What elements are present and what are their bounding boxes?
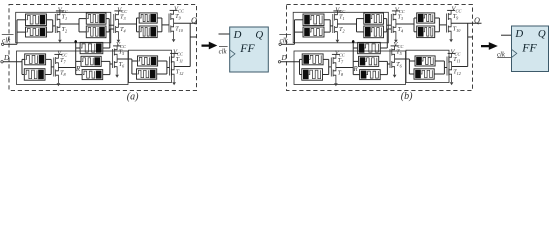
inverter U5 transistors T5 T6 (b) [389,49,391,68]
inverter U4 transistors T7 T8 (a) [53,58,55,77]
RC delay cell R8C8 (a) [24,69,45,81]
svg-text:T8: T8 [60,70,66,77]
signal flow arrow into FF1 [202,42,218,50]
svg-text:(b): (b) [401,91,413,102]
svg-text:R: R [353,66,359,73]
svg-text:T3: T3 [398,15,403,22]
RC delay cell R10C10 (b) [359,56,379,66]
RC delay cell R2C2 (a) [26,27,47,37]
wire U4 output to middle column (b) [336,67,353,69]
wire bottom-right outputs to inverter U6 gates (a) [158,60,167,62]
FF2 clock triangle pin [512,49,517,57]
svg-text:(a): (a) [127,92,139,103]
RC delay cell R4C4 (b) [364,26,384,38]
module box bottom-left chain (a) [17,51,129,85]
svg-text:T9: T9 [175,14,181,21]
svg-text:T1: T1 [62,15,67,22]
wire U6 output riser to Q node (b) [452,66,468,68]
wire bottom stage1 outputs to inverter U4 gates (b) [323,58,329,60]
RC delay cell R8C8 (b) [302,69,323,81]
wire stage1 outputs to inverter U1 gates (b) [324,19,330,21]
svg-text:D: D [3,54,10,62]
wire middle cells to inverter U5 gates (a) [101,60,110,62]
RC delay cell R5C5 (b) [417,13,435,23]
wire bottom stage1 outputs to inverter U4 gates (a) [46,58,52,60]
module box bottom-right chain (a) [129,50,172,82]
RC delay cell R7C7 (a) [25,54,46,65]
wire U2 output to stage3 (a) [118,23,136,25]
svg-text:T10: T10 [453,26,461,33]
RC delay cell R13C13 (b) [414,69,434,79]
clk input wire (a) [1,43,3,45]
svg-text:T4: T4 [120,27,125,34]
inverter U1 transistors T1 T2 (a) [54,14,56,33]
inverter U3 transistors T9 T10 (a) [168,14,170,33]
wire U6 output riser to Q node (a) [174,66,190,68]
svg-text:D: D [281,54,288,62]
RC delay cell R11C11 (b) [360,70,381,80]
svg-text:T9: T9 [453,14,459,21]
wire middle cell to U2 gates (b) [380,47,387,49]
wire middle cells to inverter U5 gates (b) [379,60,388,62]
RC delay cell R12C12 (b) [415,56,435,66]
FF1 clock triangle pin [230,50,235,58]
svg-text:D: D [233,29,242,41]
wire bottom-right outputs to inverter U6 gates (b) [435,60,444,62]
RC delay cell R9C9 (a) [80,42,103,53]
module box top chain (b) [293,12,388,43]
node bus middle column (a) [75,40,77,75]
svg-text:VCC: VCC [394,41,404,49]
RC delay cell R6C6 (b) [417,26,435,38]
inverter U2 transistors T3 T4 (b) [390,14,392,33]
svg-text:VCC: VCC [173,49,183,57]
svg-text:T11: T11 [453,57,460,64]
inverter U1 transistors T1 T2 (b) [332,14,334,33]
flip-flop FF2 box [512,26,549,72]
svg-text:T11: T11 [176,57,183,64]
wire U2 output to stage3 (b) [396,23,414,25]
module box top chain (a) [16,12,111,43]
svg-text:T7: T7 [338,58,344,65]
wire stage3 outputs to inverter U3 gates (a) [157,17,162,19]
svg-text:T6: T6 [396,62,402,69]
svg-text:T1: T1 [339,15,344,22]
inverter U5 transistors T5 T6 (a) [112,49,114,68]
wire U4 output to middle column (a) [58,67,75,69]
inverter U3 transistors T9 T10 (b) [446,14,448,33]
svg-text:T12: T12 [453,69,461,76]
RC delay cell R2C2 (b) [303,27,324,37]
dashed delay-block boundary box (b) [287,5,473,91]
RC delay cell R3C3 (a) [86,13,106,24]
flip-flop FF1 box [230,27,269,72]
wire U5 output to bottom-right cells (b) [395,58,410,60]
FF2 D input stub wire [501,34,512,36]
svg-text:VCC: VCC [451,49,461,57]
svg-text:FF: FF [239,41,255,55]
svg-text:Q: Q [474,16,480,25]
svg-text:VCC: VCC [452,6,462,14]
module box bottom-left chain (b) [294,51,406,85]
RC delay cell R12C12 (a) [138,56,158,66]
inverter U6 transistors T11 T12 (b) [446,57,448,76]
RC delay cell R7C7 (b) [302,54,323,65]
wire stage3 outputs to inverter U3 gates (b) [435,17,440,19]
svg-text:Q: Q [191,16,197,25]
RC delay cell R6C6 (a) [139,26,157,38]
RC delay cell R3C3 (b) [364,13,384,24]
svg-text:FF: FF [521,41,537,55]
wire U5 output to bottom-right cells (a) [117,58,132,60]
wire stage2 outputs to inverter U2 gates (b) [384,18,387,20]
wire stage2 outputs to inverter U2 gates (a) [106,18,109,20]
node Q output wire (b) [451,22,481,24]
svg-text:Q: Q [255,29,263,41]
svg-text:clk: clk [219,48,228,55]
svg-text:T12: T12 [176,69,184,76]
svg-text:D: D [514,28,523,40]
RC delay cell R9C9 (b) [358,42,381,53]
wire middle cell to U2 gates (a) [103,47,110,49]
svg-text:VCC: VCC [116,41,126,49]
RC delay cell R13C13 (a) [137,69,157,79]
svg-text:T4: T4 [398,27,403,34]
inverter U4 transistors T7 T8 (b) [330,58,332,77]
svg-text:T3: T3 [120,15,125,22]
inverter U6 transistors T11 T12 (a) [169,57,171,76]
svg-text:T5: T5 [396,50,401,57]
svg-text:Q: Q [538,28,546,40]
dashed delay-block boundary box (a) [9,5,197,91]
svg-text:T10: T10 [175,26,183,33]
wire U1 output to stage2 (a) [60,23,79,25]
RC delay cell R4C4 (a) [86,26,106,38]
D input wire (b) [278,61,280,63]
clk input wire (b) [279,43,281,45]
node bus middle column (b) [352,40,354,75]
svg-text:T7: T7 [60,58,66,65]
svg-text:T2: T2 [339,27,344,34]
node Q output wire (a) [174,22,197,24]
svg-text:T8: T8 [338,70,344,77]
wire U1 output to stage2 (b) [337,23,356,25]
RC delay cell R1C1 (b) [303,14,324,26]
svg-text:VCC: VCC [395,6,405,14]
RC delay cell R10C10 (a) [81,56,101,66]
svg-text:VCC: VCC [335,6,345,14]
svg-text:VCC: VCC [58,6,68,14]
svg-text:T6: T6 [119,62,125,69]
RC delay cell R5C5 (a) [139,13,157,23]
signal flow arrow into FF2 [481,42,498,50]
module box bottom-right chain (b) [406,50,449,82]
D input wire (a) [1,61,3,63]
wire stage1 outputs to inverter U1 gates (a) [47,19,53,21]
svg-text:R: R [75,66,81,73]
svg-text:VCC: VCC [174,6,184,14]
FF1 D input stub wire [219,33,230,35]
RC delay cell R11C11 (a) [82,70,103,80]
RC delay cell R1C1 (a) [26,14,47,26]
svg-text:VCC: VCC [117,6,127,14]
svg-text:T5: T5 [119,50,124,57]
inverter U2 transistors T3 T4 (a) [113,14,115,33]
svg-text:T2: T2 [62,27,67,34]
